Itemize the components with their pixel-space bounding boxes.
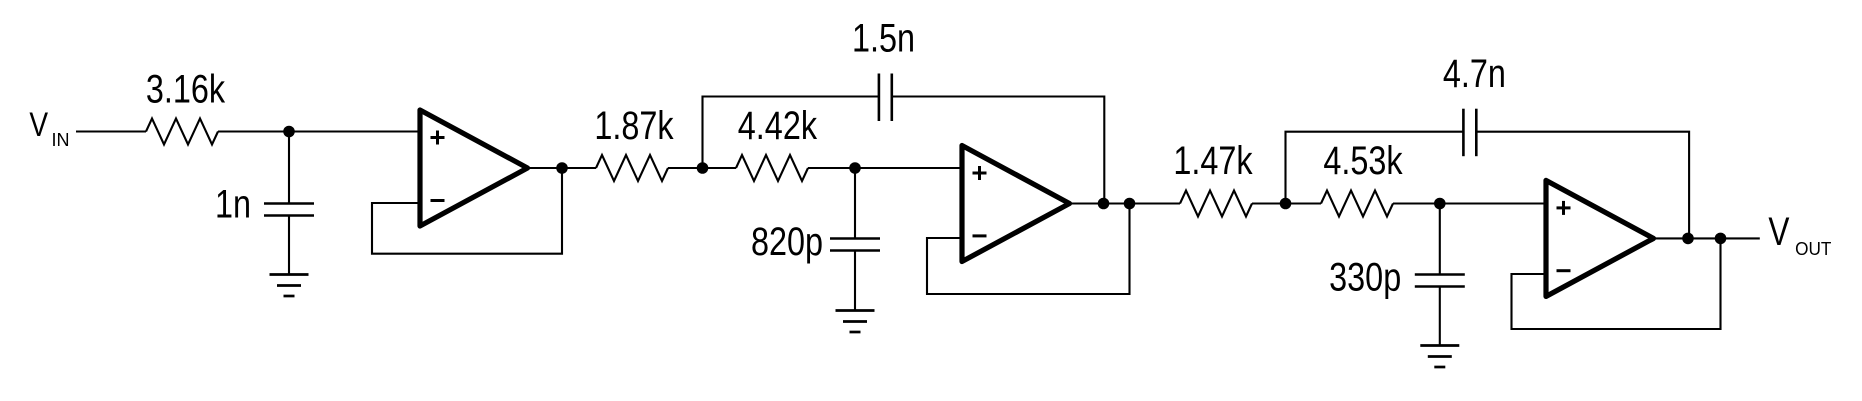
wire R5 to op-amp U3 noninverting input (1393, 202, 1546, 204)
ground GND3 (1420, 344, 1459, 347)
op-amp U3 (1546, 180, 1654, 296)
capacitor C1 1n (264, 202, 314, 205)
wire U1 output (528, 167, 597, 169)
svg-text:V: V (29, 106, 48, 144)
junction node N4 (R3 / C3 / U2+) (849, 162, 861, 174)
wire node N3 up to feedback capacitor C2 (703, 97, 879, 169)
svg-text:1.87k: 1.87k (594, 103, 674, 148)
wire node N7 up to feedback capacitor C4 (1286, 132, 1464, 204)
wire R3 to op-amp U2 noninverting input (808, 167, 962, 169)
op-amp U2 (962, 146, 1070, 262)
wire node N1 down to capacitor C1 (288, 132, 290, 204)
resistor R4 1.47k (1180, 191, 1252, 217)
capacitor C5 330p (1415, 273, 1465, 276)
wire U1 feedback loop output to inverting input (372, 168, 562, 254)
capacitor C3 820p (830, 237, 880, 240)
svg-text:1n: 1n (215, 181, 251, 226)
ground GND1 (270, 273, 309, 276)
U3 noninverting pin + marker (1557, 206, 1571, 209)
svg-text:1.5n: 1.5n (852, 15, 915, 60)
resistor R3 4.42k (736, 155, 808, 181)
U1 noninverting pin + marker (431, 136, 445, 139)
junction U1 output node N2 (556, 162, 568, 174)
wire C5 to ground (1439, 287, 1441, 346)
svg-text:IN: IN (52, 130, 70, 150)
wire C2 to U2 output node (892, 97, 1105, 204)
svg-text:3.16k: 3.16k (146, 66, 226, 111)
wire U2 feedback loop output to inverting input (927, 204, 1130, 295)
ground GND2 (836, 309, 875, 312)
junction U2 output node N6 (feedback loop tap) (1124, 198, 1136, 210)
capacitor C2 1.5n feedback (878, 74, 881, 122)
svg-text:4.7n: 4.7n (1443, 51, 1506, 96)
junction node N3 (R2 / R3 / C2 feedback) (697, 162, 709, 174)
wire U3 output to V_OUT (1654, 237, 1760, 239)
wire U3 feedback loop output to inverting input (1512, 238, 1721, 329)
U2 noninverting pin + marker (973, 172, 987, 175)
U3 inverting pin - marker (1557, 269, 1571, 272)
junction U3 output node N9 (C4 feedback tap) (1682, 233, 1694, 245)
resistor R1 3.16k (146, 119, 218, 145)
wire node N4 down to capacitor C3 (854, 168, 856, 239)
wire R2 to R3 (668, 167, 736, 169)
svg-text:4.53k: 4.53k (1323, 138, 1403, 183)
svg-text:V: V (1768, 210, 1789, 254)
U2 inverting pin - marker (973, 234, 987, 237)
svg-text:820p: 820p (751, 219, 823, 264)
svg-text:330p: 330p (1329, 254, 1401, 299)
resistor R5 4.53k (1321, 191, 1393, 217)
wire C1 to ground (288, 216, 290, 275)
svg-text:1.47k: 1.47k (1173, 138, 1253, 183)
junction node N1 (R1 / C1 / U1+) (283, 126, 295, 138)
svg-text:OUT: OUT (1795, 238, 1831, 259)
junction U2 output node N5 (C2 feedback tap) (1098, 198, 1110, 210)
resistor R2 1.87k (596, 155, 668, 181)
junction U3 output node N10 (feedback loop tap) (1715, 233, 1727, 245)
wire C3 to ground (854, 251, 856, 311)
wire U2 output (1070, 202, 1181, 204)
capacitor C4 4.7n feedback (1462, 109, 1465, 157)
junction node N7 (R4 / R5 / C4 feedback) (1280, 198, 1292, 210)
junction node N8 (R5 / C5 / U3+) (1434, 198, 1446, 210)
wire R1 to op-amp U1 noninverting input (218, 130, 420, 132)
wire node N8 down to capacitor C5 (1439, 204, 1441, 275)
wire C4 to U3 output node (1476, 132, 1689, 239)
wire R4 to R5 (1252, 202, 1321, 204)
wire V_IN input lead (76, 130, 146, 132)
svg-text:4.42k: 4.42k (738, 103, 818, 148)
U1 inverting pin - marker (431, 199, 445, 202)
op-amp U1 (420, 110, 528, 226)
